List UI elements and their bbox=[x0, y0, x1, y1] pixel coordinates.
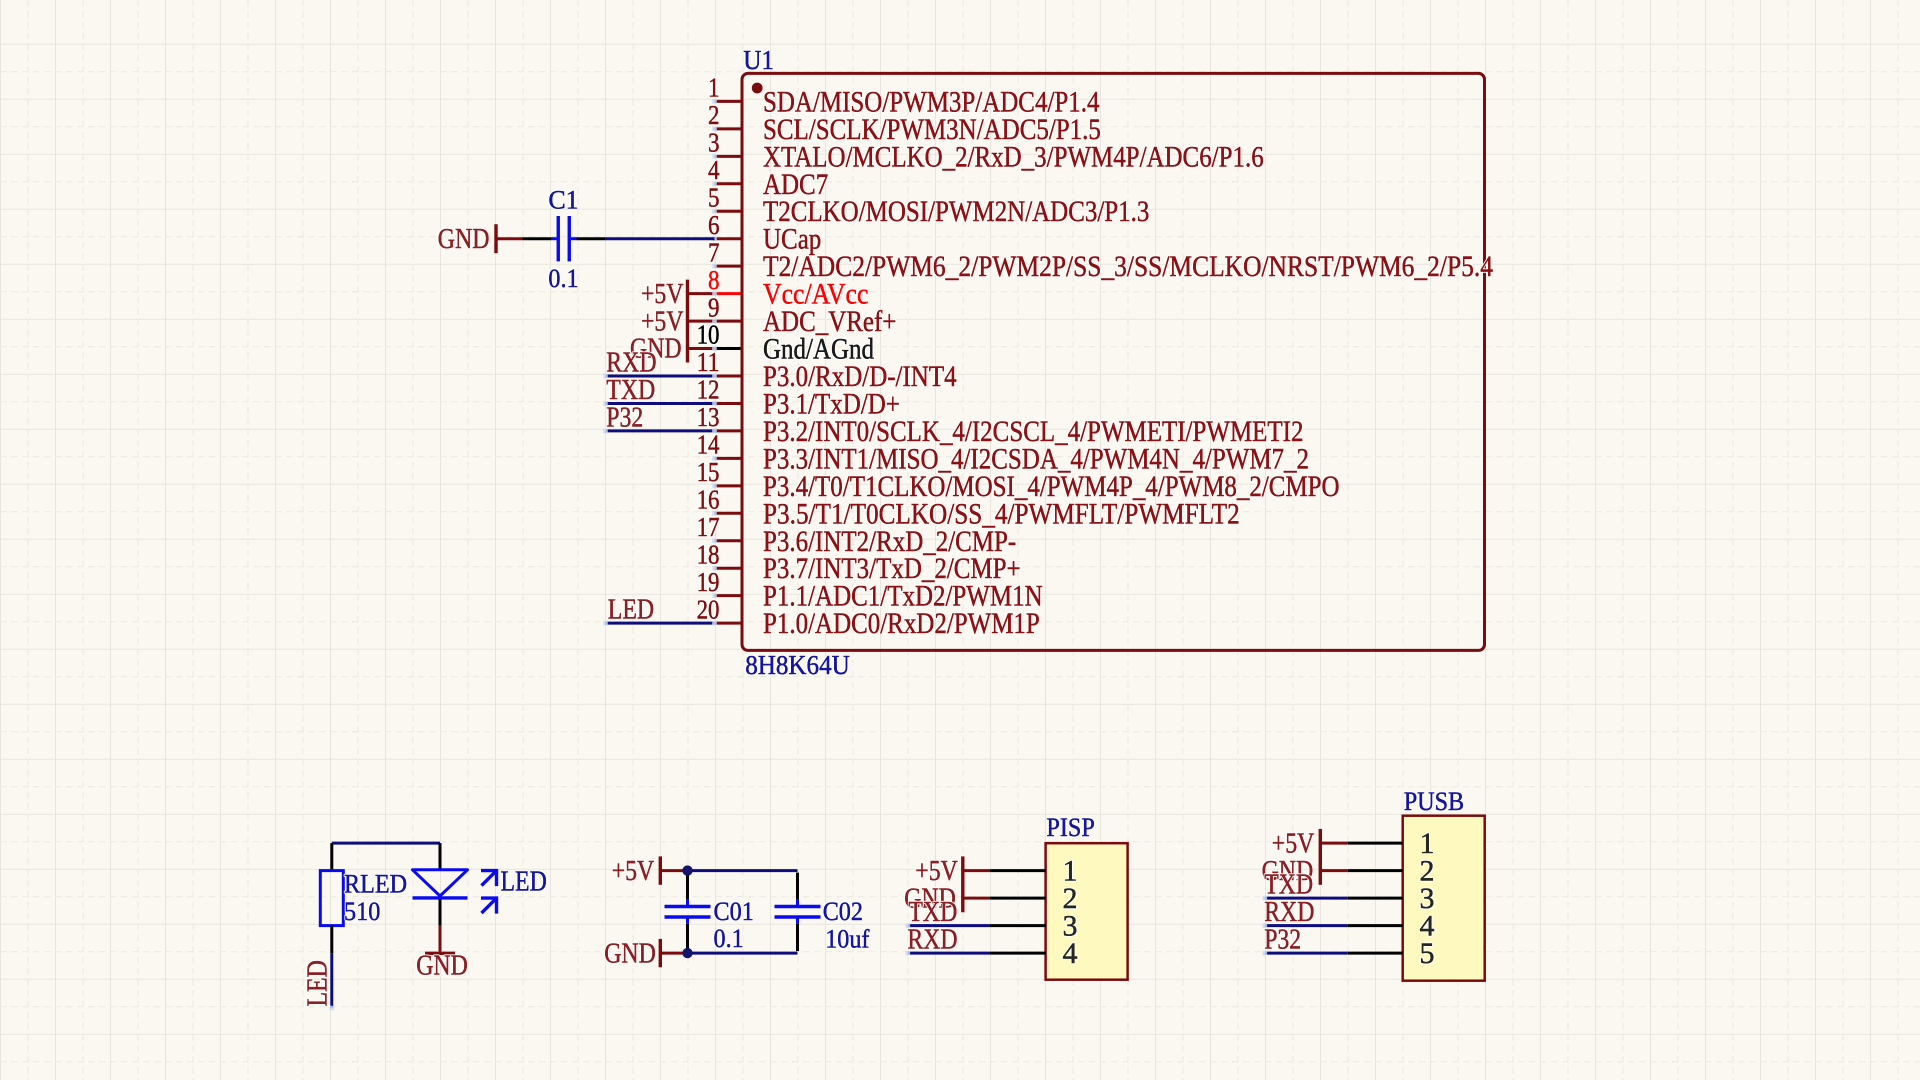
svg-text:+5V: +5V bbox=[612, 856, 655, 887]
svg-text:19: 19 bbox=[697, 567, 720, 597]
svg-text:GND: GND bbox=[438, 224, 490, 255]
svg-text:1: 1 bbox=[708, 73, 720, 103]
svg-text:18: 18 bbox=[697, 539, 720, 569]
svg-text:6: 6 bbox=[708, 210, 720, 240]
svg-text:PISP: PISP bbox=[1046, 813, 1094, 842]
svg-text:U1: U1 bbox=[743, 45, 774, 75]
svg-text:LED: LED bbox=[501, 866, 547, 897]
svg-text:5: 5 bbox=[708, 182, 720, 212]
svg-text:4: 4 bbox=[1063, 937, 1078, 970]
svg-text:+5V: +5V bbox=[641, 306, 684, 337]
svg-text:RXD: RXD bbox=[907, 925, 957, 956]
svg-text:TXD: TXD bbox=[1264, 870, 1313, 901]
svg-text:TXD: TXD bbox=[606, 375, 655, 406]
svg-text:C01: C01 bbox=[714, 897, 754, 926]
svg-text:P32: P32 bbox=[606, 402, 643, 433]
svg-text:LED: LED bbox=[608, 595, 654, 626]
svg-text:GND: GND bbox=[416, 951, 468, 982]
svg-text:17: 17 bbox=[697, 512, 720, 542]
svg-text:510: 510 bbox=[344, 897, 380, 926]
svg-text:P32: P32 bbox=[1264, 925, 1301, 956]
svg-text:12: 12 bbox=[697, 375, 720, 405]
svg-text:+5V: +5V bbox=[915, 856, 958, 887]
svg-text:T2/ADC2/PWM6_2/PWM2P/SS_3/SS/M: T2/ADC2/PWM6_2/PWM2P/SS_3/SS/MCLKO/NRST/… bbox=[763, 250, 1493, 283]
svg-text:14: 14 bbox=[697, 430, 720, 460]
svg-text:20: 20 bbox=[697, 594, 720, 624]
svg-text:TXD: TXD bbox=[908, 897, 957, 928]
svg-text:13: 13 bbox=[697, 402, 720, 432]
svg-text:C1: C1 bbox=[548, 185, 578, 214]
svg-text:XTALO/MCLKO_2/RxD_3/PWM4P/ADC6: XTALO/MCLKO_2/RxD_3/PWM4P/ADC6/P1.6 bbox=[763, 140, 1264, 173]
svg-text:8H8K64U: 8H8K64U bbox=[745, 650, 850, 680]
svg-text:+5V: +5V bbox=[1272, 828, 1315, 859]
svg-text:RLED: RLED bbox=[344, 870, 407, 899]
svg-text:0.1: 0.1 bbox=[548, 264, 578, 293]
svg-text:9: 9 bbox=[708, 292, 720, 322]
svg-text:PUSB: PUSB bbox=[1404, 787, 1465, 816]
svg-text:0.1: 0.1 bbox=[714, 924, 744, 953]
svg-text:RXD: RXD bbox=[1264, 897, 1314, 928]
svg-text:LED: LED bbox=[303, 960, 334, 1006]
svg-text:2: 2 bbox=[708, 100, 720, 130]
svg-text:16: 16 bbox=[697, 485, 720, 515]
svg-text:RXD: RXD bbox=[606, 348, 656, 379]
svg-text:10uf: 10uf bbox=[825, 925, 870, 954]
svg-text:11: 11 bbox=[697, 347, 720, 377]
svg-text:GND: GND bbox=[604, 938, 656, 969]
svg-text:3: 3 bbox=[708, 128, 720, 158]
svg-text:8: 8 bbox=[708, 265, 720, 295]
svg-text:C02: C02 bbox=[823, 897, 863, 926]
svg-text:15: 15 bbox=[697, 457, 720, 487]
svg-text:+5V: +5V bbox=[641, 279, 684, 310]
svg-text:7: 7 bbox=[708, 237, 720, 267]
svg-text:4: 4 bbox=[708, 155, 720, 185]
svg-text:10: 10 bbox=[697, 320, 720, 350]
svg-text:5: 5 bbox=[1420, 937, 1435, 970]
svg-text:P1.0/ADC0/RxD2/PWM1P: P1.0/ADC0/RxD2/PWM1P bbox=[763, 607, 1040, 640]
